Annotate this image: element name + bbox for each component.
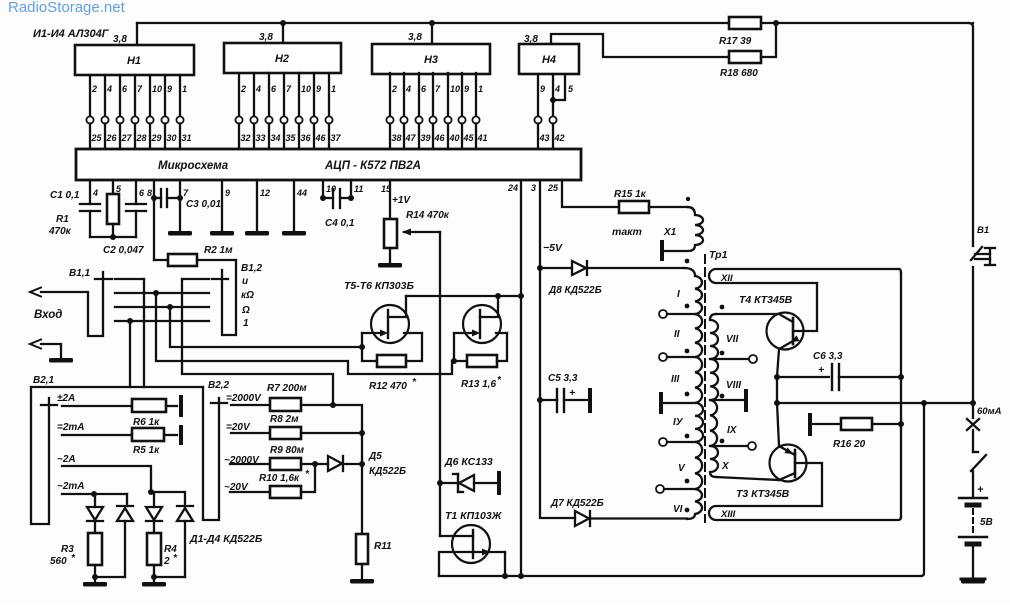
contact bar tap III-IV: [659, 394, 663, 412]
wire lower input to ground: [41, 344, 61, 357]
svg-text:R6 1к: R6 1к: [133, 417, 160, 428]
ground R11: [361, 564, 363, 578]
wire range 2000V ac: [230, 463, 270, 465]
wire display pin 6 to IC pin 34: [268, 73, 270, 117]
tap I-II: [659, 310, 667, 318]
resistor R2 1M: [153, 198, 155, 260]
wiper arrow R14: [404, 231, 440, 233]
wire display pin 4 to IC pin 33: [253, 73, 255, 117]
wire display pin 9 to IC pin 43: [537, 74, 539, 117]
svg-text:4: 4: [92, 188, 98, 198]
svg-text:Н1: Н1: [127, 55, 141, 67]
svg-text:31: 31: [182, 133, 192, 143]
svg-text:ХII: ХII: [720, 273, 733, 284]
wire display pin 9 to IC pin 45: [461, 73, 463, 117]
node emitter rail junction: [774, 400, 780, 406]
svg-text:R10 1,6к: R10 1,6к: [259, 473, 300, 484]
wire line4 to B2 rail: [129, 321, 131, 387]
svg-text:Т1 КП103Ж: Т1 КП103Ж: [445, 510, 503, 522]
node H2 feed junction: [280, 20, 286, 26]
IC pin 8 stub: [153, 180, 155, 198]
svg-text:30: 30: [167, 133, 177, 143]
svg-text:33: 33: [256, 133, 266, 143]
svg-text:39: 39: [421, 133, 431, 143]
node R9 junction: [312, 461, 318, 467]
svg-text:+1V: +1V: [392, 195, 411, 206]
svg-text:±2A: ±2A: [57, 393, 75, 404]
svg-text:42: 42: [554, 133, 565, 143]
svg-text:Т5-Т6 КП303Б: Т5-Т6 КП303Б: [344, 280, 414, 292]
svg-text:IХ: IХ: [727, 425, 738, 436]
wire R18 to top rail: [761, 23, 776, 57]
IC pin 10 stub: [322, 180, 324, 198]
svg-text:VII: VII: [726, 334, 738, 345]
resistor R18 680: [729, 51, 761, 63]
svg-text:С3 0,01: С3 0,01: [186, 199, 221, 210]
IC pin 5 stub: [112, 180, 114, 194]
primary polarity dots: [685, 259, 690, 264]
node pin8-C3 junction: [151, 195, 157, 201]
svg-text:R7 200м: R7 200м: [267, 383, 307, 394]
capacitor C3 0,01: [154, 197, 161, 199]
resistor R1 470k: [107, 194, 119, 224]
svg-text:32: 32: [241, 133, 251, 143]
IC U1 ADC K572PV2A: [76, 149, 581, 180]
svg-text:С4 0,1: С4 0,1: [325, 218, 355, 229]
wire display pin 10 to IC pin 36: [298, 73, 300, 117]
svg-text:−5V: −5V: [543, 242, 563, 254]
resistor R10 1,6k*: [270, 486, 301, 498]
capacitor C1 0,1: [80, 203, 100, 205]
transistor T5 KP303: [371, 305, 409, 343]
svg-text:28: 28: [136, 133, 147, 143]
svg-text:8: 8: [147, 188, 152, 198]
svg-text:4: 4: [255, 84, 261, 94]
svg-text:1: 1: [331, 84, 336, 94]
wire display pin 7 to IC pin 28: [134, 75, 136, 117]
wire R8 output: [301, 432, 362, 434]
wire range 2A dc: [62, 405, 132, 407]
node line3 junction: [167, 304, 173, 310]
svg-text:4: 4: [554, 84, 560, 94]
svg-text:~2mA: ~2mA: [57, 481, 85, 492]
svg-text:15: 15: [381, 184, 392, 194]
wire T4 collector from VII: [716, 313, 779, 315]
resistor R16 20: [808, 415, 812, 434]
svg-text:R8 2м: R8 2м: [270, 414, 299, 425]
svg-text:Д1-Д4 КД522Б: Д1-Д4 КД522Б: [189, 533, 263, 545]
svg-text:11: 11: [354, 184, 363, 194]
svg-text:КД522Б: КД522Б: [369, 466, 406, 477]
wire display pin 1 to IC pin 37: [328, 73, 330, 117]
wire range 20V ac: [230, 491, 270, 493]
svg-text:~2A: ~2A: [57, 454, 76, 465]
wire T4 emitter: [779, 341, 793, 349]
diode D4: [177, 505, 193, 507]
wire B1.1 contact 1: [115, 278, 144, 280]
wire display pin 10 to IC pin 40: [447, 73, 449, 117]
IC pin 15 stub: [389, 180, 391, 219]
svg-text:3,8: 3,8: [408, 32, 422, 43]
svg-text:29: 29: [151, 133, 162, 143]
svg-text:Д7 КД522Б: Д7 КД522Б: [550, 498, 604, 509]
wire XII to T4 base: [795, 283, 817, 331]
wire battery to ground: [972, 547, 974, 578]
svg-text:25: 25: [547, 183, 559, 193]
wire display pin 10 to IC pin 29: [149, 75, 151, 117]
display indicator Н2: [224, 43, 341, 73]
svg-text:Х: Х: [721, 461, 730, 472]
diode D1: [94, 494, 96, 507]
wire R9 output: [301, 463, 315, 465]
svg-text:=20V: =20V: [226, 422, 251, 433]
node D5 junction: [359, 461, 365, 467]
svg-text:27: 27: [121, 133, 133, 143]
svg-text:3,8: 3,8: [259, 32, 273, 43]
node T1 gate bottom junction: [502, 573, 508, 579]
capacitor C4 0,1: [320, 195, 326, 201]
svg-text:VIII: VIII: [726, 380, 741, 391]
wire display pin 4 to IC pin 47: [403, 73, 405, 117]
wire B1.2 contact1 down to divider node: [182, 279, 333, 405]
wire feedback right vertical: [972, 22, 974, 24]
node R4 ground junction: [151, 574, 157, 580]
svg-text:Д6 КС133: Д6 КС133: [444, 456, 493, 468]
resistor R4 2*: [147, 533, 161, 565]
wire display pin 4 to IC pin 42: [552, 74, 554, 117]
svg-text:R18 680: R18 680: [720, 68, 758, 79]
ground battery: [961, 578, 985, 581]
svg-text:9: 9: [540, 84, 545, 94]
resistor R7 200M: [270, 398, 301, 411]
svg-text:46: 46: [434, 133, 446, 143]
svg-text:Д5: Д5: [368, 451, 382, 462]
wire T1 source loop: [439, 552, 473, 576]
wire R10 up to R9 node: [301, 466, 315, 492]
svg-text:3: 3: [531, 183, 536, 193]
display indicator Н3: [372, 44, 490, 74]
diode D5 KD522B: [315, 463, 328, 465]
svg-text:36: 36: [301, 133, 312, 143]
wire R2 to switch B1.2: [197, 259, 236, 261]
svg-text:С1 0,1: С1 0,1: [50, 190, 80, 201]
svg-text:R1: R1: [56, 214, 69, 225]
svg-text:I: I: [677, 289, 680, 300]
ground pin 7: [168, 231, 192, 236]
node pin24-drain rail junction: [518, 293, 524, 299]
wire fuse to switch: [972, 430, 974, 452]
node 2A ac junction: [148, 489, 154, 495]
wire C1-R1-C2 common: [90, 236, 136, 238]
svg-text:Д8 КД522Б: Д8 КД522Б: [548, 285, 602, 296]
wire line2 to T6 gate loop: [156, 293, 452, 374]
svg-text:+: +: [977, 484, 984, 496]
svg-text:С6 3,3: С6 3,3: [813, 351, 843, 362]
wire T3 collector from X: [716, 477, 779, 480]
node R3 ground junction: [92, 574, 98, 580]
wire switch to battery: [972, 471, 974, 496]
svg-text:Микросхема: Микросхема: [158, 160, 229, 172]
svg-text:R9 80м: R9 80м: [270, 445, 305, 456]
svg-text:560: 560: [50, 556, 67, 567]
IC pin 6 stub: [135, 180, 137, 204]
svg-text:кΩ: кΩ: [241, 290, 254, 301]
svg-text:5В: 5В: [980, 517, 993, 528]
wire display pin 1 to IC pin 41: [475, 73, 477, 117]
svg-text:9: 9: [167, 84, 172, 94]
resistor R11: [356, 534, 368, 564]
svg-text:46: 46: [315, 133, 327, 143]
svg-text:Т4 КТ345В: Т4 КТ345В: [739, 294, 793, 306]
ground pin 12: [245, 231, 269, 236]
node R7 junction: [330, 402, 336, 408]
svg-text:38: 38: [392, 133, 402, 143]
wire display pin 1 to IC pin 31: [179, 75, 181, 117]
resistor R6 1k: [132, 399, 166, 412]
svg-text:Т3 КТ345В: Т3 КТ345В: [736, 488, 790, 500]
svg-text:10: 10: [301, 84, 311, 94]
resistor R3 560*: [88, 533, 102, 565]
display indicator Н1: [75, 45, 194, 75]
wire range 2000V dc: [231, 404, 270, 406]
resistor R9 80M: [270, 458, 301, 470]
node 2mA ac junction: [91, 491, 97, 497]
wire H2 supply feed: [282, 23, 284, 43]
svg-text:1: 1: [478, 84, 483, 94]
node T5 gate junction: [359, 344, 365, 350]
svg-text:470к: 470к: [48, 226, 72, 237]
wire contact line 4: [115, 320, 209, 322]
ground R14: [389, 248, 391, 262]
node R13 input junction: [451, 358, 457, 364]
wire display pin 9 to IC pin 30: [164, 75, 166, 117]
contact bar tap VIII-IX: [710, 399, 744, 401]
node C5 junction: [537, 397, 543, 403]
svg-text:1: 1: [243, 318, 249, 329]
node R17-R18 junction: [773, 20, 779, 26]
svg-text:Тр1: Тр1: [709, 249, 728, 261]
wire R15 to winding X1: [649, 206, 688, 208]
ground R3: [94, 577, 96, 581]
wire H4 supply feed: [551, 34, 729, 57]
node H3 feed junction: [429, 20, 435, 26]
svg-text:9: 9: [225, 188, 230, 198]
IC pin 12 stub to ground: [256, 180, 258, 230]
svg-text:Х1: Х1: [663, 227, 677, 238]
svg-text:Вход: Вход: [34, 309, 62, 321]
svg-text:2: 2: [163, 556, 170, 567]
svg-text:43: 43: [539, 133, 550, 143]
IC pin 4 stub: [89, 180, 91, 204]
svg-text:R17 39: R17 39: [719, 36, 752, 47]
svg-text:+: +: [818, 364, 824, 376]
display indicator Н4: [519, 44, 579, 74]
wire XIII to T3 base: [795, 463, 822, 506]
polarity dot X1: [686, 197, 690, 201]
node D6 junction: [437, 480, 443, 486]
potentiometer R14 470k: [384, 219, 397, 248]
svg-text:40: 40: [449, 133, 460, 143]
svg-text:В2,1: В2,1: [33, 375, 55, 386]
capacitor C2 0,047: [126, 203, 146, 205]
svg-text:10: 10: [450, 84, 460, 94]
wire display pin 6 to IC pin 27: [119, 75, 121, 117]
svg-text:Ω: Ω: [241, 305, 250, 316]
svg-text:3,8: 3,8: [113, 34, 127, 45]
tap II-III: [659, 353, 667, 361]
svg-text:47: 47: [405, 133, 417, 143]
node fuse junction: [970, 400, 976, 406]
node T4 emitter C6 junction: [774, 374, 780, 380]
node C6 right junction: [898, 374, 904, 380]
wire R14 wiper to T1 drain: [439, 232, 441, 536]
IC pin 7 stub to ground: [179, 180, 181, 230]
node R8 junction: [359, 430, 365, 436]
wire display pin 2 to IC pin 25: [89, 75, 91, 117]
svg-text:10: 10: [326, 184, 336, 194]
svg-text:60мА: 60мА: [977, 406, 1002, 417]
svg-text:Н3: Н3: [424, 54, 438, 66]
svg-text:R13 1,6: R13 1,6: [461, 379, 496, 390]
svg-text:9: 9: [464, 84, 469, 94]
svg-text:R12 470: R12 470: [369, 381, 407, 392]
tap V-VI: [656, 485, 664, 493]
svg-text:26: 26: [106, 133, 118, 143]
wire to diode D2: [126, 494, 128, 506]
IC pin 44 stub to ground: [293, 180, 295, 230]
resistor R17 39: [729, 17, 761, 29]
wire H4 pin 5 jog to pin 4 line: [553, 74, 565, 100]
ground pin 44: [282, 231, 306, 236]
winding XII loop: [709, 269, 899, 283]
wire H3 supply feed: [431, 23, 433, 44]
node pin24-bottom rail junction: [518, 573, 524, 579]
svg-text:34: 34: [271, 133, 281, 143]
svg-text:37: 37: [331, 133, 342, 143]
ground pin 9: [210, 231, 234, 236]
tap IV-V: [659, 438, 667, 446]
wire B1.2 contact 1: [182, 278, 209, 280]
wire emitter rail: [776, 377, 778, 403]
svg-text:Н4: Н4: [542, 54, 556, 66]
node R1 bottom junction: [110, 234, 116, 240]
wire contact line 3: [115, 306, 209, 308]
node battery branch junction: [921, 400, 927, 406]
primary winding I-VI: [684, 268, 703, 519]
svg-text:И1-И4 АЛ304Г: И1-И4 АЛ304Г: [33, 28, 110, 40]
ground R4: [153, 577, 155, 581]
wire display pin 9 to IC pin 46: [313, 73, 315, 117]
node line2 junction: [153, 290, 159, 296]
wire display pin 6 to IC pin 39: [418, 73, 420, 117]
resistor R12 470*: [362, 333, 377, 361]
svg-text:1: 1: [182, 84, 187, 94]
svg-text:такт: такт: [612, 226, 642, 238]
svg-text:25: 25: [91, 133, 103, 143]
diode D3: [153, 494, 155, 507]
wire display pin 4 to IC pin 26: [104, 75, 106, 117]
svg-text:АЦП - К572 ПВ2А: АЦП - К572 ПВ2А: [324, 160, 421, 172]
wire top supply rail: [137, 22, 729, 24]
svg-text:В1,2: В1,2: [241, 263, 263, 274]
wire range 2mA ac: [62, 493, 127, 495]
svg-text:IУ: IУ: [673, 417, 684, 428]
wire line3 to T5 gate: [170, 307, 362, 347]
wire B1 to fuse: [972, 267, 974, 418]
node line4 junction: [127, 318, 133, 324]
wire pin 25 to R15: [562, 181, 619, 207]
wire bottom rail: [439, 575, 921, 577]
svg-text:Н2: Н2: [275, 53, 289, 65]
contact bar D6: [497, 473, 501, 493]
node R16 right junction: [898, 421, 904, 427]
resistor R8 2M: [270, 427, 301, 439]
svg-text:44: 44: [296, 188, 307, 198]
transistor T6 KP303: [463, 305, 501, 343]
wire pin 24 rail: [520, 181, 522, 576]
wire range 2mA dc: [62, 434, 132, 436]
ground input: [49, 358, 73, 363]
svg-text:+: +: [569, 387, 575, 399]
svg-text:2: 2: [391, 84, 397, 94]
svg-text:2: 2: [91, 84, 97, 94]
svg-text:R14 470к: R14 470к: [406, 210, 450, 221]
wire display pin 7 to IC pin 46: [432, 73, 434, 117]
wire H1 supply feed: [136, 23, 138, 45]
svg-text:ХIII: ХIII: [720, 509, 736, 520]
svg-text:VI: VI: [673, 504, 683, 515]
wire B2 input rail: [31, 386, 203, 388]
wire R7 to divider node: [301, 405, 362, 534]
svg-text:10: 10: [152, 84, 162, 94]
wire to diode D4: [151, 492, 185, 506]
wire T1 drain: [440, 535, 473, 537]
wire display pin 7 to IC pin 35: [283, 73, 285, 117]
svg-text:В1,1: В1,1: [69, 268, 91, 279]
IC pin 9 stub to ground: [221, 180, 223, 230]
svg-text:С5 3,3: С5 3,3: [548, 373, 578, 384]
wire range 20V dc: [231, 432, 270, 434]
resistor R15 1k: [619, 201, 649, 213]
wire pin 3 rail to D7: [540, 181, 575, 518]
wire emitter rail to battery: [777, 402, 973, 404]
tap VII-VIII: [710, 358, 749, 360]
switch battery: [971, 455, 986, 471]
wire battery minus branch: [921, 403, 924, 576]
svg-text:45: 45: [463, 133, 475, 143]
node C3-pin7 junction: [177, 195, 183, 201]
svg-text:В2,2: В2,2: [208, 380, 230, 391]
wire contact1 to B2 rail: [143, 279, 145, 387]
node -5V junction: [537, 265, 543, 271]
resistor R5 1k: [132, 428, 164, 441]
svg-text:R15 1к: R15 1к: [614, 189, 647, 200]
svg-text:4: 4: [405, 84, 411, 94]
wire display pin 2 to IC pin 38: [389, 73, 391, 117]
transformer core: [704, 255, 706, 522]
diode D2: [117, 505, 133, 507]
svg-text:9: 9: [316, 84, 321, 94]
tap IX-X: [710, 445, 748, 447]
svg-text:12: 12: [260, 188, 270, 198]
wire T5 T6 drain rail: [406, 295, 521, 297]
contact bar C5: [588, 390, 592, 411]
secondary winding VII-X: [710, 314, 718, 477]
svg-text:4: 4: [106, 84, 112, 94]
node T6 drain junction: [495, 293, 501, 299]
input terminal arrow lower: [30, 340, 41, 349]
contact bar R6: [179, 397, 183, 415]
